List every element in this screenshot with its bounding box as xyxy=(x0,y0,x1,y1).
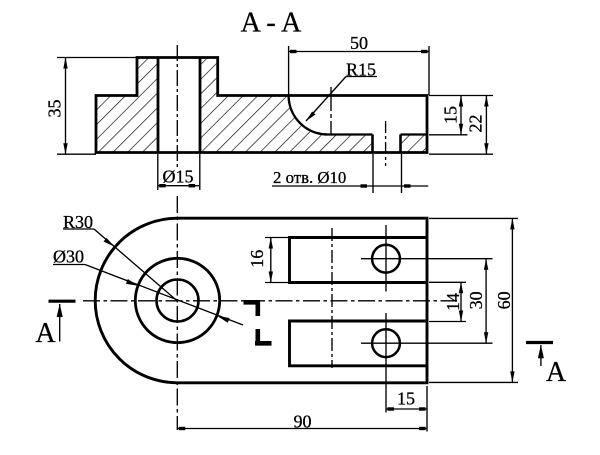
dim 22 arrow up xyxy=(484,96,488,107)
svg-text:35: 35 xyxy=(44,100,64,118)
dim 35 ext bottom xyxy=(57,153,96,155)
svg-text:A: A xyxy=(546,357,567,388)
dim 15 right ext bottom xyxy=(429,134,468,136)
hole O15 right wall xyxy=(199,58,202,153)
dim O15 line xyxy=(158,185,200,187)
hole centerline vertical upper xyxy=(385,225,387,292)
plan outline xyxy=(95,218,427,383)
section mark left arrow xyxy=(59,304,61,342)
dim 15 arrow down xyxy=(459,124,463,135)
label O30 underline xyxy=(53,264,85,266)
dim 22 arrow down xyxy=(484,143,488,154)
circle O30 xyxy=(135,258,219,342)
plan horizontal centerline xyxy=(83,300,457,302)
dim 14 ext bottom xyxy=(429,321,466,323)
hole O10 left wall xyxy=(371,135,374,153)
dim 30 arrow up xyxy=(484,259,488,270)
plan centerline x332 xyxy=(331,228,333,368)
svg-text:Ø15: Ø15 xyxy=(163,167,194,187)
dim 60 arrow down xyxy=(510,371,514,382)
dim 2 otv O10 leader line xyxy=(272,185,428,187)
dim 50 line xyxy=(289,51,429,53)
dim O15 tick right xyxy=(189,184,196,187)
label R15 leader xyxy=(306,77,346,122)
dim 15 plan tick right xyxy=(419,407,426,410)
centerline O10 section xyxy=(385,121,387,166)
pocket lower xyxy=(290,321,428,366)
svg-text:15: 15 xyxy=(397,389,415,409)
dim 90 line xyxy=(177,428,427,430)
dim 60 arrow up xyxy=(510,218,514,229)
dim 22 line xyxy=(485,96,487,155)
dim O15 tick left xyxy=(159,184,166,187)
hatch middle block xyxy=(200,58,373,153)
dim 50 tick left xyxy=(290,50,297,53)
svg-text:15: 15 xyxy=(440,106,460,124)
label O30 arrow lower xyxy=(218,316,230,323)
dim 16 ext top xyxy=(265,237,289,239)
section mark right arrow xyxy=(540,345,542,366)
section mark left bar xyxy=(49,300,76,303)
dim 90 tick left xyxy=(179,427,186,430)
dim 16 ext bottom xyxy=(265,282,289,284)
label R30 arrow xyxy=(104,238,115,247)
plan vertical centerline xyxy=(176,196,178,430)
dim 60 line xyxy=(511,218,513,382)
dim 14 ext top xyxy=(429,281,466,283)
dim 2 otv O10 ext right xyxy=(401,154,403,193)
svg-text:A - A: A - A xyxy=(241,8,302,39)
hatch right band xyxy=(401,135,428,153)
dim 15 plan tick left xyxy=(387,407,394,410)
dim 2 otv O10 tick right xyxy=(404,184,411,187)
hole centerline horizontal lower xyxy=(361,342,493,344)
label O30 leader xyxy=(85,265,243,326)
section outline xyxy=(96,58,427,153)
svg-text:Ø30: Ø30 xyxy=(53,247,84,267)
label R30 underline xyxy=(63,228,94,230)
dim 35 line xyxy=(65,58,67,155)
dim 35 ext top xyxy=(57,57,138,59)
hole O15 left wall xyxy=(157,58,160,153)
section bend mark lower xyxy=(255,329,272,346)
section bend mark upper xyxy=(244,300,259,316)
dim 15 right line xyxy=(460,96,462,135)
dim O15 ext left xyxy=(157,154,159,190)
label R15 underline xyxy=(346,76,377,78)
hole centerline horizontal upper xyxy=(361,258,493,260)
dim 50 tick right xyxy=(421,50,428,53)
dim 15 arrow up xyxy=(459,96,463,107)
dim 2 otv O10 tick left xyxy=(361,184,368,187)
dim 90 tick right xyxy=(419,427,426,430)
dim 50 ext left xyxy=(288,46,290,95)
dim 50 ext right xyxy=(428,46,430,95)
section mark right bar xyxy=(526,341,553,344)
hole O10 right wall xyxy=(399,135,402,153)
dim 15 right ext top xyxy=(429,95,493,97)
label R15 arrow xyxy=(306,112,316,122)
hole O10 lower xyxy=(372,329,400,357)
dim O15 ext right xyxy=(199,154,201,190)
hole centerline vertical lower xyxy=(385,313,387,376)
dim 22 ext bottom xyxy=(429,153,493,155)
dim 30 arrow down xyxy=(484,332,488,343)
centerline R15 xyxy=(330,87,332,135)
fillet R15 arc xyxy=(289,96,328,135)
pocket upper xyxy=(290,238,428,283)
svg-text:90: 90 xyxy=(294,412,312,432)
dim 30 line xyxy=(485,259,487,344)
svg-text:22: 22 xyxy=(466,115,486,133)
svg-text:60: 60 xyxy=(494,291,514,309)
dim 2 otv O10 ext left xyxy=(372,154,374,193)
dim 14 arrow down xyxy=(459,311,463,322)
dim 15 plan ext left xyxy=(385,376,387,413)
svg-text:50: 50 xyxy=(350,33,368,53)
svg-text:30: 30 xyxy=(466,291,486,309)
dim 60 ext bottom xyxy=(429,381,518,383)
dim 60 ext top xyxy=(429,217,518,219)
dim 35 arrow up xyxy=(63,58,67,69)
dim 14 line xyxy=(460,282,462,321)
dim 15 plan line xyxy=(386,408,427,410)
circle O15 plan xyxy=(157,280,199,322)
hole O10 upper xyxy=(372,245,400,273)
dim 14 arrow up xyxy=(459,282,463,293)
dim 16 line xyxy=(270,238,272,283)
label O30 arrow upper xyxy=(126,279,138,286)
pocket bottom line left xyxy=(328,133,373,135)
centerline O15 section xyxy=(176,45,178,169)
dim 16 arrow down xyxy=(269,272,273,283)
label R30 leader xyxy=(94,229,177,301)
pocket bottom line right xyxy=(401,133,428,135)
hatch left block xyxy=(96,58,158,153)
dim 15 plan ext right xyxy=(426,386,428,432)
svg-text:2 отв. Ø10: 2 отв. Ø10 xyxy=(273,168,346,187)
svg-text:16: 16 xyxy=(247,250,267,268)
dim 35 arrow down xyxy=(63,143,67,154)
svg-text:A: A xyxy=(35,318,56,349)
dim 16 arrow up xyxy=(269,238,273,249)
svg-text:14: 14 xyxy=(443,293,463,311)
